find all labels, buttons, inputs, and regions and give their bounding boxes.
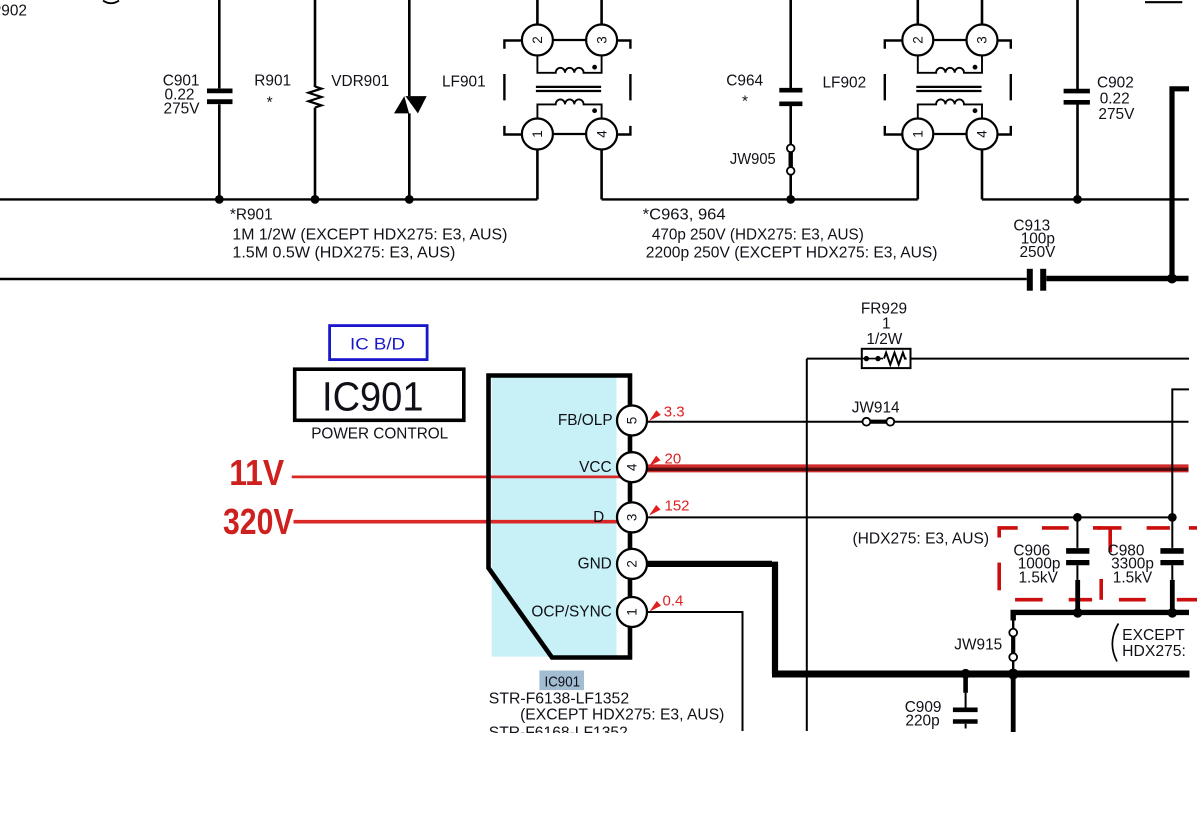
svg-text:152: 152 <box>665 498 690 515</box>
svg-text:*C963, 964: *C963, 964 <box>643 207 726 224</box>
wire 11V red <box>229 452 632 493</box>
svg-text:(HDX275: E3, AUS): (HDX275: E3, AUS) <box>853 531 990 548</box>
IC901 designator box <box>295 369 464 420</box>
wire VDR901 top <box>408 0 411 96</box>
pin 5 wire <box>647 421 863 423</box>
IC901 highlighted label <box>539 671 584 691</box>
svg-text:1M 1/2W (EXCEPT HDX275: E3, AU: 1M 1/2W (EXCEPT HDX275: E3, AUS) <box>232 226 507 243</box>
wire C901 top <box>218 0 221 88</box>
svg-text:GND: GND <box>578 556 612 573</box>
wire LF902 pin4 down <box>981 150 984 200</box>
svg-text:0.22: 0.22 <box>1100 90 1130 107</box>
wire FR929 corner down <box>806 359 808 731</box>
svg-text:11V: 11V <box>229 452 284 493</box>
junction dot JW905 <box>786 195 795 204</box>
svg-text:VDR901: VDR901 <box>331 73 389 90</box>
junction dot thick bus <box>1167 274 1177 284</box>
svg-text:1: 1 <box>882 315 891 332</box>
AC line 2 <box>0 278 1027 280</box>
svg-text:*: * <box>267 95 273 112</box>
connector arc remnant <box>103 1 119 4</box>
wire C964 to JW905 <box>789 106 792 145</box>
svg-text:0.4: 0.4 <box>663 592 684 609</box>
annotation C963/C964 values <box>643 207 938 262</box>
svg-text:C902: C902 <box>1097 75 1134 92</box>
svg-text:275V: 275V <box>1098 106 1135 123</box>
svg-text:1.5M 0.5W (HDX275: E3, AUS): 1.5M 0.5W (HDX275: E3, AUS) <box>232 244 455 261</box>
IC901 outline <box>489 376 631 658</box>
svg-text:JW915: JW915 <box>954 636 1002 653</box>
svg-text:VCC: VCC <box>579 459 612 476</box>
red dashed box C906 <box>999 528 1101 600</box>
svg-text:D: D <box>593 509 604 526</box>
resistor R901 <box>254 73 321 112</box>
svg-text:LF901: LF901 <box>442 74 486 91</box>
jumper JW915 <box>954 621 1017 672</box>
capacitor C913 <box>1013 218 1056 291</box>
VCC thick red bus right <box>646 464 1189 473</box>
IC901 pin 1 <box>531 597 647 627</box>
svg-text:C964: C964 <box>726 73 763 90</box>
junction dot R901 <box>311 195 320 204</box>
svg-text:470p 250V (HDX275: E3, AUS): 470p 250V (HDX275: E3, AUS) <box>652 226 864 243</box>
svg-text:1: 1 <box>625 608 640 616</box>
pin 3 wire <box>647 516 1172 518</box>
pin 1 wire <box>648 612 743 731</box>
svg-text:*: * <box>742 94 748 111</box>
IC901 body highlight <box>492 378 617 657</box>
bottom white crop <box>0 733 1197 820</box>
svg-text:3.3: 3.3 <box>664 403 685 420</box>
svg-text:IC901: IC901 <box>545 675 581 691</box>
svg-text:(EXCEPT HDX275: E3, AUS): (EXCEPT HDX275: E3, AUS) <box>520 707 724 724</box>
junction dot snubber C980 <box>1168 608 1178 618</box>
capacitor C909 <box>905 674 978 730</box>
red annotation pin4 <box>649 451 681 468</box>
wire JW905 bottom <box>789 175 792 200</box>
junction dot C909 <box>961 669 971 679</box>
svg-text:5: 5 <box>625 417 640 425</box>
svg-text:JW905: JW905 <box>730 151 776 168</box>
pin 2 GND thick wire <box>647 562 1189 674</box>
red annotation pin3 <box>649 498 690 516</box>
svg-text:20: 20 <box>665 451 682 468</box>
svg-text:JW914: JW914 <box>852 400 900 417</box>
red annotation pin1 <box>650 592 684 611</box>
svg-text:P902: P902 <box>0 2 27 19</box>
capacitor C964 <box>726 73 802 111</box>
svg-text:4: 4 <box>625 463 640 471</box>
annotation EXCEPT HDX275 <box>1122 627 1186 660</box>
svg-text:STR-F6138-LF1352: STR-F6138-LF1352 <box>489 691 629 708</box>
net D corner up right <box>1172 389 1189 517</box>
svg-text:EXCEPT: EXCEPT <box>1122 627 1185 644</box>
wire R901 top <box>314 0 317 87</box>
varistor VDR901 <box>331 73 427 113</box>
fusible resistor FR929 <box>807 301 1189 368</box>
wire C901 bottom <box>218 104 221 199</box>
thick stub below JW915 <box>1011 674 1016 732</box>
svg-text:1.5kV: 1.5kV <box>1113 569 1153 586</box>
line filter LF902 <box>823 0 1011 150</box>
pin 5 wire after JW914 <box>894 421 1189 423</box>
junction dot JW915 bus <box>1008 669 1019 680</box>
svg-text:250V: 250V <box>1020 244 1057 261</box>
wire C902 top <box>1076 0 1079 89</box>
svg-text:1/2W: 1/2W <box>866 331 902 348</box>
svg-text:FB/OLP: FB/OLP <box>558 412 613 429</box>
capacitor C902 <box>1064 75 1135 123</box>
svg-text:220p: 220p <box>905 713 939 730</box>
svg-text:2: 2 <box>625 560 640 568</box>
capacitor C980 <box>1108 517 1184 612</box>
svg-text:*R901: *R901 <box>230 207 273 224</box>
annotation R901 values <box>230 207 508 262</box>
wire C964 top <box>789 0 792 88</box>
line filter LF901 <box>442 0 630 150</box>
svg-text:R901: R901 <box>254 73 291 90</box>
top-right cut line <box>1145 1 1182 3</box>
capacitor C906 <box>1013 517 1089 612</box>
IC901 pin 2 <box>578 549 647 579</box>
AC line right segment <box>982 198 1189 200</box>
svg-text:1.5kV: 1.5kV <box>1019 569 1059 586</box>
wire 320V red <box>223 501 632 542</box>
wire LF901 pin1 down <box>536 150 539 200</box>
EXCEPT HDX275 parenthesis <box>1112 624 1118 662</box>
wire LF901 pin4 down <box>600 150 603 200</box>
junction dot snubber C906 <box>1073 608 1083 618</box>
junction dot D line C906 <box>1073 513 1082 522</box>
capacitor C901 <box>163 73 233 118</box>
red annotation pin5 <box>649 403 684 421</box>
junction dot C902 <box>1073 195 1082 204</box>
wire VDR901 bottom <box>408 113 411 199</box>
IC901 part number lines <box>489 691 725 742</box>
junction dot VDR901 <box>405 195 414 204</box>
junction dot D line C980 <box>1168 513 1177 522</box>
svg-text:3: 3 <box>625 514 640 522</box>
svg-text:IC B/D: IC B/D <box>350 335 405 353</box>
wire R901 bottom <box>314 108 317 200</box>
svg-text:LF902: LF902 <box>823 74 867 91</box>
svg-text:OCP/SYNC: OCP/SYNC <box>531 604 611 621</box>
svg-text:POWER CONTROL: POWER CONTROL <box>311 426 448 443</box>
jumper JW914 <box>852 400 900 426</box>
svg-text:320V: 320V <box>223 501 294 542</box>
AC line left segment <box>0 198 537 200</box>
svg-text:HDX275:: HDX275: <box>1122 643 1186 660</box>
svg-text:275V: 275V <box>164 100 201 117</box>
wire LF902 pin1 down <box>916 150 919 200</box>
IC901 pin 4 <box>579 452 647 482</box>
thick line C913 to bus <box>1046 276 1188 281</box>
jumper JW905 <box>730 145 795 175</box>
wire C902 bottom <box>1076 104 1079 199</box>
thick snubber ground line <box>1013 612 1189 620</box>
svg-text:IC901: IC901 <box>322 373 424 419</box>
IC B/D box <box>330 326 428 360</box>
GND bus overlay <box>772 671 1189 678</box>
svg-text:2200p 250V (EXCEPT HDX275: E3,: 2200p 250V (EXCEPT HDX275: E3, AUS) <box>646 244 938 261</box>
thick bus top-right corner <box>1172 89 1189 279</box>
red dashed box C980 <box>1097 528 1197 600</box>
IC901 pin 3 <box>593 502 647 532</box>
AC line middle segment <box>602 198 918 200</box>
IC901 pin 5 <box>558 406 647 436</box>
junction dot C901 <box>215 195 224 204</box>
